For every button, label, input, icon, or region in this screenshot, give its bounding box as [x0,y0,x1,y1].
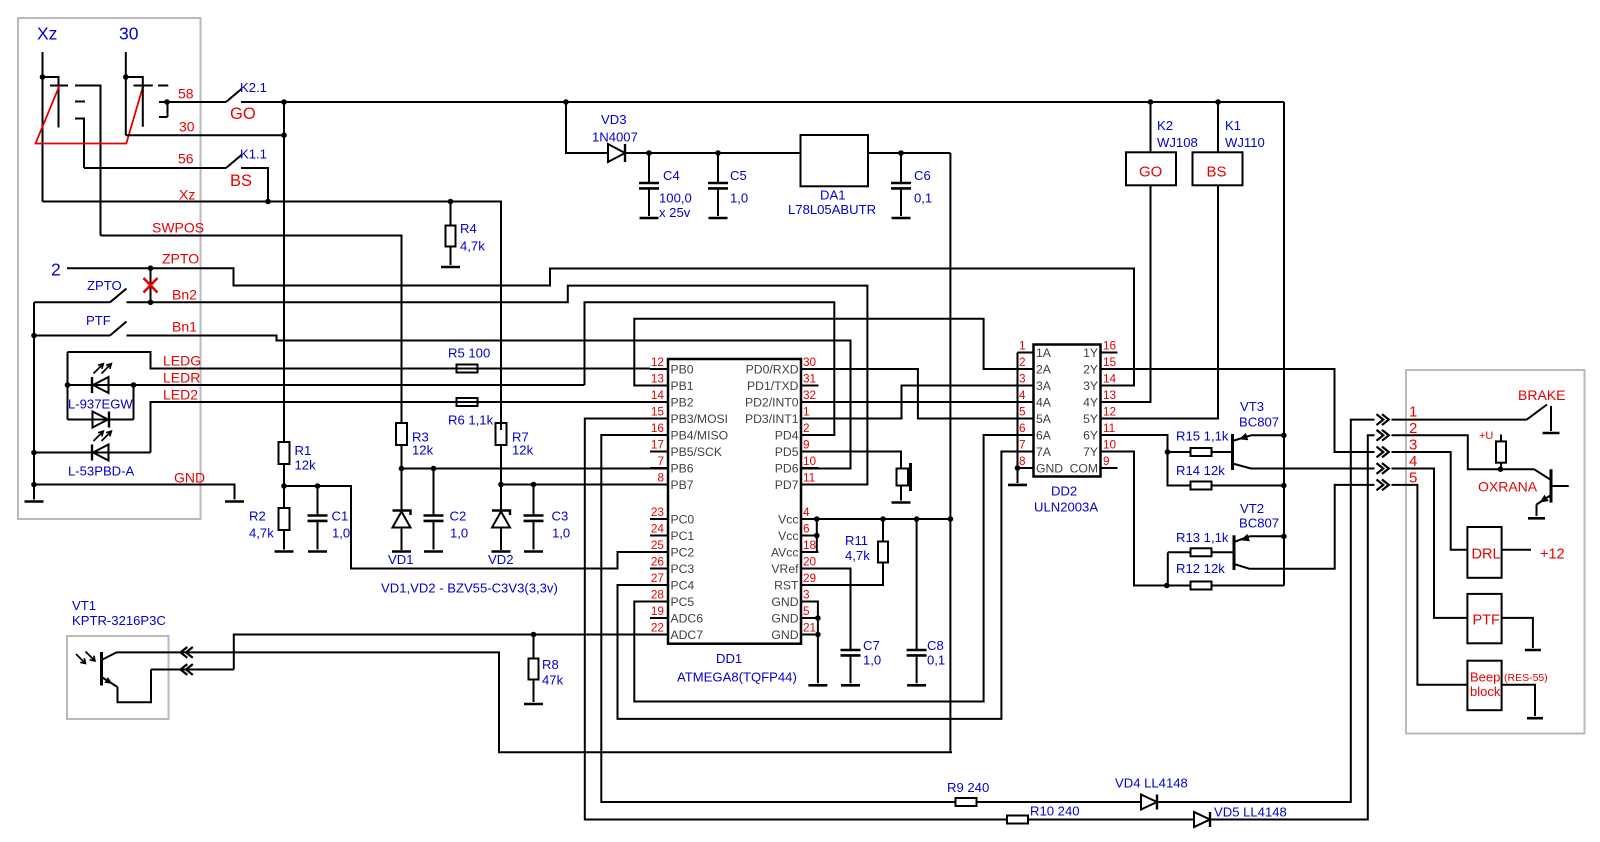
pin 4 Vcc stub [801,518,819,520]
svg-text:12k: 12k [295,458,317,473]
transistor VT2 BC807 [1233,535,1236,570]
node R3-PB6 [399,466,405,472]
svg-text:8: 8 [657,471,664,485]
pin 11 6Y DD2 stub [1101,434,1118,436]
ground C6 [892,217,911,220]
wire LED common left [67,352,69,420]
block Beep [1467,661,1501,711]
svg-text:SWPOS: SWPOS [152,220,204,236]
svg-text:BC807: BC807 [1239,516,1279,531]
wire 1A to GND [1017,353,1019,484]
svg-text:R9 240: R9 240 [947,780,989,795]
switch BRAKE blade [1527,405,1547,420]
svg-text:22: 22 [651,621,664,635]
svg-text:BS: BS [230,172,252,190]
svg-text:25: 25 [651,538,665,552]
svg-text:1Y: 1Y [1083,346,1098,360]
svg-text:VD2: VD2 [488,552,513,567]
svg-text:BS: BS [1207,164,1227,181]
svg-text:BC807: BC807 [1239,415,1279,430]
wire PD5 to resonator [801,452,901,469]
pin 8 PB7 stub [650,484,668,486]
wire K1 drop [1217,102,1219,152]
pin 7 7A DD2 stub [1018,451,1034,453]
node VD3 branch [563,99,569,105]
svg-text:14: 14 [651,388,665,402]
arrow in VT1 emitter [181,664,188,675]
svg-text:0,1: 0,1 [927,653,945,668]
pin 6 6A DD2 stub [1018,434,1034,436]
svg-text:0,1: 0,1 [914,191,932,206]
pin 10 PD6 stub [801,467,819,469]
svg-text:C4: C4 [663,168,680,183]
svg-text:PC1: PC1 [671,529,695,543]
capacitor C7 [841,649,861,652]
svg-text:VRef: VRef [771,562,799,576]
node C8 top [914,516,920,522]
svg-text:6: 6 [803,522,810,536]
svg-text:C2: C2 [450,509,467,524]
wire VD3 to DA1 [625,152,801,154]
svg-text:C7: C7 [863,638,880,653]
svg-text:GND: GND [771,595,798,609]
pin 30 PD0/RXD stub [801,368,819,370]
svg-text:PD3/INT1: PD3/INT1 [745,412,799,426]
svg-text:21: 21 [803,621,816,635]
wire line2 to OXRANA base [1392,435,1535,469]
svg-text:Vcc: Vcc [778,529,798,543]
wire BS out [241,168,268,202]
ground C7 [841,684,860,687]
resistor R12 [1167,585,1191,587]
svg-text:13: 13 [1103,388,1117,402]
diode VD3 [608,144,625,162]
ground R8 [524,703,543,706]
svg-text:VD1: VD1 [388,552,413,567]
node 6Y-R15 [1165,449,1171,455]
svg-text:ADC7: ADC7 [671,628,704,642]
switch K1.1 blade [226,155,242,169]
svg-text:4: 4 [1019,388,1026,402]
svg-text:17: 17 [651,438,664,452]
pin 16 1Y DD2 stub [1101,352,1118,354]
svg-text:2A: 2A [1036,363,1052,377]
wire Xz line [43,202,502,431]
svg-text:2Y: 2Y [1083,363,1098,377]
wire PC4 to 7A [618,452,1034,719]
wire VRef to C7 [801,569,851,651]
relay K1 BS box [1193,152,1243,185]
node C3 [531,482,537,488]
node 58 [164,99,170,105]
wire PTF switch left [34,335,110,337]
wire VT3 collector line4 [1251,468,1375,470]
svg-text:Bn2: Bn2 [172,287,197,303]
wire LED2 line [151,402,651,453]
wire RST to R11 [801,563,883,586]
svg-text:4,7k: 4,7k [845,548,870,563]
svg-text:3Y: 3Y [1083,379,1098,393]
svg-text:K2: K2 [1157,118,1173,133]
led LED2 (L-937EGW b) [68,419,134,421]
wire R10 to VD5 [1027,819,1194,821]
svg-text:6Y: 6Y [1083,429,1098,443]
ground Beep [1527,717,1543,720]
pin 26 PC3 stub [650,568,668,570]
svg-text:14: 14 [1103,372,1117,386]
svg-text:LED2: LED2 [163,387,198,403]
pin 14 3Y DD2 stub [1101,385,1118,387]
svg-text:L-53PBD-A: L-53PBD-A [68,464,134,479]
zener VD2 [492,511,510,516]
svg-text:3: 3 [1019,372,1026,386]
svg-text:DD1: DD1 [716,651,742,666]
svg-text:12k: 12k [412,443,434,458]
ground C4 [640,217,659,220]
wire DA1 out [868,152,950,154]
svg-text:R6 1,1k: R6 1,1k [448,413,494,428]
wire line3 to DRL [1392,452,1468,550]
svg-text:PB6: PB6 [671,462,694,476]
pin 6 Vcc stub [801,535,819,537]
block DRL [1467,527,1501,578]
resonator [897,469,909,486]
svg-text:9: 9 [1103,454,1110,468]
red actuator link [36,86,144,144]
wire 30 [126,134,284,136]
pin 1 PD3/INT1 stub [801,418,819,420]
wire ZPTO switch left [34,301,110,303]
svg-text:GO: GO [1139,164,1162,181]
svg-text:6A: 6A [1036,429,1052,443]
node R14 right [1281,483,1287,489]
svg-text:16: 16 [651,421,665,435]
capacitor C5 [717,153,719,183]
svg-text:VD4 LL4148: VD4 LL4148 [1115,776,1188,791]
svg-text:GND: GND [771,628,798,642]
wire PD0 to 5A [801,369,1034,419]
pin 2 2A DD2 stub [1018,368,1034,370]
chip DD2 body [1034,345,1101,477]
svg-text:5A: 5A [1036,412,1052,426]
pin 9 COM DD2 stub [1101,467,1118,469]
svg-text:11: 11 [803,471,815,485]
ground R4 [441,266,460,269]
node ZPTO tap [148,265,154,271]
svg-text:PD4: PD4 [775,429,799,443]
wire GND line [34,485,235,500]
node VT2 emitter [1281,534,1287,540]
svg-text:58: 58 [178,86,194,102]
block PTF [1467,594,1501,643]
arrow in VT1 collector [181,647,188,658]
wire line5 to Beep [1392,485,1468,685]
arrow out line 5 [1377,480,1384,491]
wire PC5 to 6A [634,435,1033,702]
Xz contact dash middle [75,101,85,103]
svg-text:5: 5 [803,604,810,618]
pin 27 PC4 stub [650,584,668,586]
node Xz pole [40,74,46,80]
node R8 [531,632,537,638]
svg-text:L-937EGW: L-937EGW [68,397,133,412]
svg-text:13: 13 [651,372,665,386]
wire R9 to VD4 [976,801,1141,803]
svg-text:GND: GND [1036,462,1063,476]
node +5 rail [948,516,954,522]
transistor VT3 BC807 [1231,434,1234,470]
svg-text:11: 11 [1103,421,1115,435]
svg-text:47k: 47k [542,673,564,688]
node Vcc pin4 [814,516,820,522]
ground R2 [275,550,294,553]
zener VD1 [393,511,411,516]
svg-text:6: 6 [1019,421,1026,435]
svg-text:RST: RST [774,579,799,593]
wire node to PC2 [284,486,668,569]
ground DD2 [1008,484,1027,487]
diode VD4 [1141,795,1157,810]
svg-text:4: 4 [803,505,810,519]
svg-text:ZPTO: ZPTO [87,278,122,293]
svg-text:R12 12k: R12 12k [1176,561,1225,576]
svg-text:5: 5 [1019,405,1026,419]
svg-text:7: 7 [657,454,664,468]
node PTF branch [31,333,37,339]
svg-text:R15 1,1k: R15 1,1k [1176,429,1229,444]
ground C2 [424,550,443,553]
resistor R4 [450,202,452,226]
svg-text:K1.1: K1.1 [240,147,267,162]
svg-text:VD1,VD2 - BZV55-C3V3(3,3v): VD1,VD2 - BZV55-C3V3(3,3v) [381,581,558,596]
chip DD1 body [668,359,801,644]
node C6 [898,150,904,156]
svg-text:30: 30 [179,119,195,135]
svg-text:C5: C5 [730,168,747,183]
svg-text:16: 16 [1103,339,1117,353]
svg-text:3: 3 [803,588,810,602]
svg-text:15: 15 [651,405,665,419]
led LED3 (L-53PBD-A) [34,452,151,454]
svg-text:K2.1: K2.1 [240,80,267,95]
wire VD5 to line2 [1210,435,1375,819]
wire Vcc rail [801,518,950,520]
resistor R3 [396,423,407,445]
wire VT1 emitter line [151,669,234,671]
svg-text:8: 8 [1019,454,1026,468]
capacitor C3 [533,485,535,516]
Xz moving contact [43,77,59,128]
svg-text:2: 2 [51,260,61,280]
svg-text:1: 1 [803,405,810,419]
svg-text:GO: GO [230,105,256,123]
svg-text:PB7: PB7 [671,478,694,492]
Xz contact dash 2 / SWPOS takeoff [75,86,101,236]
pin 14 PB2 stub [650,401,668,403]
node R1-R2 [281,483,287,489]
svg-text:PB5/SCK: PB5/SCK [671,445,722,459]
svg-text:5Y: 5Y [1083,412,1098,426]
ground C8 [907,684,926,687]
node Bn2 tap [148,300,154,306]
transistor OXRANA (NPN) [1550,469,1553,502]
svg-text:DRL: DRL [1472,547,1501,563]
svg-text:VT3: VT3 [1240,399,1264,414]
svg-text:1,0: 1,0 [450,526,468,541]
svg-text:30: 30 [119,24,139,44]
ground GND line [225,500,244,503]
svg-text:VD3: VD3 [601,112,626,127]
svg-text:10: 10 [803,454,817,468]
svg-text:PD1/TXD: PD1/TXD [747,379,799,393]
pin 17 PB5/SCK stub [650,451,668,453]
svg-text:PB0: PB0 [671,363,694,377]
resistor R1 [279,442,290,464]
svg-text:20: 20 [803,555,817,569]
node R12 left [1164,583,1170,589]
wire K1 to 5Y [1101,185,1219,418]
node C1 [315,483,321,489]
node 30 pole [123,74,129,80]
pin 3 GND stub [801,601,819,603]
svg-text:Xz: Xz [37,24,57,44]
wire SWPOS [101,236,402,424]
pin 1 1A DD2 stub [1018,352,1034,354]
svg-text:DA1: DA1 [820,188,845,203]
svg-text:AVcc: AVcc [771,546,799,560]
switch PTF blade [110,322,127,336]
wire PB1 to 2A [634,319,1033,386]
wire VD3 branch [566,102,608,153]
pin 32 PD2/INT0 stub [801,401,819,403]
svg-text:32: 32 [803,388,816,402]
svg-text:R10 240: R10 240 [1030,804,1080,819]
pin 15 PB3/MOSI stub [650,418,668,420]
wire Beep out [1502,685,1535,716]
svg-text:BRAKE: BRAKE [1518,387,1565,403]
pin 28 PC5 stub [650,601,668,603]
svg-text:WJ108: WJ108 [1157,135,1198,150]
node R11 top [880,516,886,522]
pin 15 2Y DD2 stub [1101,368,1118,370]
wire Bn2 [127,286,868,485]
svg-text:1N4007: 1N4007 [592,130,638,145]
switch ZPTO blade [110,289,127,303]
svg-text:VT1: VT1 [72,598,96,613]
capacitor C8 [916,519,918,650]
svg-text:C1: C1 [332,509,349,524]
capacitor C1 [317,486,319,516]
pin 9 PD5 stub [801,451,819,453]
svg-text:15: 15 [1103,355,1117,369]
svg-text:28: 28 [651,588,665,602]
svg-text:3: 3 [1409,437,1417,454]
svg-text:24: 24 [651,522,665,536]
svg-text:7A: 7A [1036,445,1052,459]
svg-text:OXRANA: OXRANA [1478,479,1538,495]
svg-text:31: 31 [803,372,816,386]
30 contact dash 1 [134,85,153,87]
pin 20 VRef stub [801,568,819,570]
svg-text:R11: R11 [845,533,868,548]
resistor +U pull-up [1500,435,1502,442]
svg-text:PC2: PC2 [671,546,695,560]
pin 18 AVcc stub [801,551,819,553]
arrow out line 4 [1377,463,1384,474]
ground resonator [892,501,911,504]
svg-text:Bn1: Bn1 [172,319,197,335]
wire PB4 to R9 line [601,435,956,802]
wire PB3 to R10 line [585,419,1008,820]
pin 8 GND DD2 stub [1018,467,1034,469]
led LED1 (L-937EGW a) [68,384,585,386]
svg-text:100,0: 100,0 [659,191,692,206]
ground left column [25,500,44,503]
node GO-column [281,99,287,105]
ground BRAKE [1543,432,1560,435]
wire 58/GO top rail [241,101,1284,103]
capacitor C2 [433,469,435,516]
ground PTF [1525,649,1541,652]
wire PD3 to 3A [801,386,1034,419]
wire 58 [167,101,226,103]
node K2 branch [1148,99,1154,105]
58 contact stub [159,101,167,103]
pin 24 PC1 stub [650,535,668,537]
resistor R10 [1007,816,1028,824]
svg-text:PTF: PTF [1473,613,1501,629]
svg-text:7Y: 7Y [1083,445,1098,459]
connector 30 pole wire [125,52,127,135]
pin 16 PB4/MISO stub [650,434,668,436]
arrow out line 3 [1377,447,1384,458]
pin 2 PD4 stub [801,434,819,436]
svg-text:1A: 1A [1036,346,1052,360]
svg-text:2: 2 [1409,420,1417,437]
svg-text:19: 19 [651,604,664,618]
relay K2 GO box [1126,152,1176,185]
svg-text:L78L05ABUTR: L78L05ABUTR [788,202,876,217]
svg-text:2: 2 [803,421,810,435]
connector box (ignition/inputs) [18,18,201,519]
node C4 [646,150,652,156]
svg-text:Vcc: Vcc [778,513,798,527]
resistor R11 [882,519,884,542]
wire LED2 right up [133,385,135,420]
svg-text:23: 23 [651,505,665,519]
wire Vcc pins 6/18 [801,519,817,552]
pin 19 ADC6 stub [650,617,668,619]
svg-text:1,0: 1,0 [552,526,570,541]
svg-text:C3: C3 [552,509,569,524]
wire line1 to BRAKE [1392,419,1527,421]
wire VT2 collector to line5 [1250,485,1375,569]
svg-text:LEDR: LEDR [163,370,200,386]
svg-text:1,0: 1,0 [332,526,350,541]
node C5 [715,150,721,156]
svg-text:1: 1 [1409,404,1417,421]
optocoupler box VT1 [67,636,169,719]
node R4 branch [448,199,454,205]
svg-text:ATMEGA8(TQFP44): ATMEGA8(TQFP44) [677,670,797,685]
pin 11 PD7 stub [801,484,819,486]
svg-text:PB1: PB1 [671,379,694,393]
pin 29 RST stub [801,584,819,586]
svg-text:R1: R1 [295,443,312,458]
node LED left mid [65,382,71,388]
pin 7 PB6 stub [650,467,668,469]
node VT3 emitter [1281,433,1287,439]
